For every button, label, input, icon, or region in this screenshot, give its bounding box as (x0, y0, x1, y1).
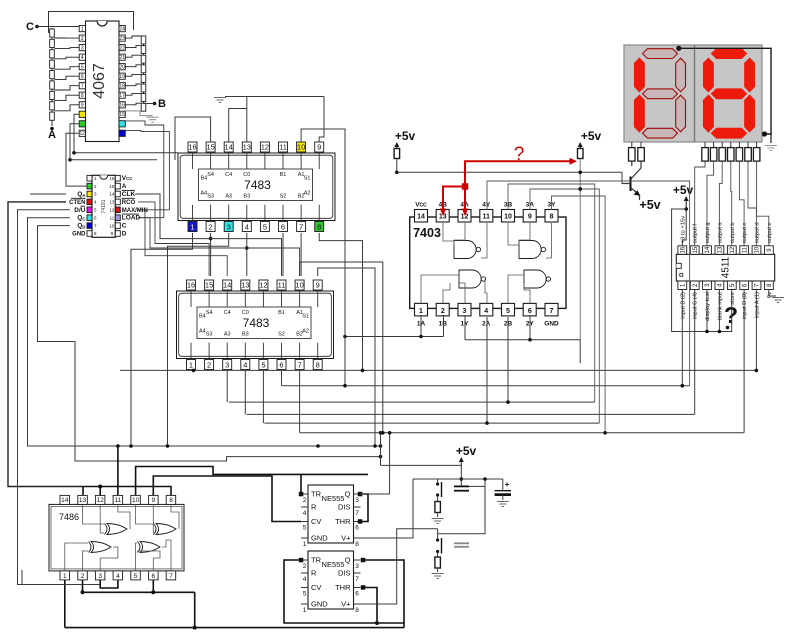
svg-text:12: 12 (730, 246, 736, 253)
svg-text:B1: B1 (278, 310, 285, 316)
svg-text:input C (4): input C (4) (693, 292, 699, 319)
svg-text:S1: S1 (304, 176, 311, 182)
svg-text:A: A (122, 183, 127, 190)
svg-text:3: 3 (81, 45, 84, 51)
svg-text:7: 7 (299, 222, 303, 231)
svg-text:5: 5 (261, 360, 265, 369)
svg-text:display test: display test (705, 292, 711, 321)
svg-text:4511: 4511 (721, 256, 732, 278)
svg-text:5: 5 (263, 222, 267, 231)
svg-text:LOAD: LOAD (122, 215, 141, 222)
svg-text:14: 14 (223, 281, 231, 290)
svg-text:3: 3 (227, 222, 231, 231)
svg-text:14: 14 (417, 214, 425, 221)
svg-text:1: 1 (81, 26, 84, 32)
svg-text:7: 7 (355, 576, 359, 583)
svg-text:11: 11 (278, 281, 286, 290)
svg-text:15: 15 (693, 246, 699, 253)
svg-text:QC: QC (77, 215, 86, 222)
svg-text:input A (1): input A (1) (755, 292, 761, 318)
svg-text:10: 10 (132, 497, 140, 504)
svg-text:3: 3 (355, 563, 359, 570)
svg-text:4: 4 (243, 360, 247, 369)
svg-text:A3: A3 (224, 332, 231, 338)
svg-text:14: 14 (61, 497, 69, 504)
svg-text:15: 15 (119, 112, 125, 118)
svg-text:C4: C4 (225, 172, 232, 178)
svg-text:GND: GND (311, 600, 328, 609)
svg-text:21: 21 (119, 55, 125, 61)
svg-text:+5v: +5v (581, 129, 602, 143)
svg-text:13: 13 (79, 497, 87, 504)
svg-text:13: 13 (241, 281, 249, 290)
svg-text:9: 9 (317, 143, 321, 152)
svg-text:4: 4 (116, 573, 120, 580)
svg-text:+5v: +5v (639, 198, 660, 212)
svg-text:14: 14 (225, 143, 233, 152)
svg-text:16: 16 (109, 176, 115, 181)
svg-text:2: 2 (441, 308, 445, 315)
svg-text:+3 to +15v: +3 to +15v (680, 216, 686, 243)
svg-text:18: 18 (119, 84, 125, 90)
svg-text:B4: B4 (201, 176, 208, 182)
svg-text:8: 8 (550, 214, 554, 221)
svg-text:7486: 7486 (59, 512, 79, 522)
svg-text:A3: A3 (225, 194, 232, 200)
svg-text:12: 12 (80, 131, 86, 137)
svg-text:7403: 7403 (413, 226, 441, 240)
svg-text:5: 5 (81, 65, 84, 71)
svg-text:3: 3 (355, 497, 359, 504)
svg-text:output a: output a (717, 222, 723, 244)
svg-text:15: 15 (109, 184, 115, 189)
svg-text:THR: THR (335, 517, 351, 526)
svg-text:C0: C0 (243, 172, 250, 178)
svg-text:5: 5 (134, 573, 138, 580)
svg-text:9: 9 (528, 214, 532, 221)
svg-text:8: 8 (355, 607, 359, 614)
svg-text:A4: A4 (201, 190, 208, 196)
svg-text:3: 3 (463, 308, 467, 315)
svg-text:15: 15 (206, 143, 214, 152)
svg-text:5: 5 (303, 525, 307, 532)
svg-text:CV: CV (311, 517, 321, 526)
svg-text:blank input: blank input (717, 292, 723, 320)
svg-text:C: C (26, 21, 34, 33)
svg-text:RCO: RCO (122, 200, 136, 206)
svg-text:DIS: DIS (338, 569, 351, 578)
svg-text:6: 6 (151, 573, 155, 580)
svg-text:12: 12 (261, 143, 269, 152)
svg-text:16: 16 (681, 246, 687, 253)
svg-text:R: R (311, 503, 317, 512)
svg-text:15: 15 (205, 281, 213, 290)
svg-text:4: 4 (303, 576, 307, 583)
svg-text:6: 6 (355, 525, 359, 532)
svg-text:output b: output b (730, 222, 736, 243)
svg-text:VCC: VCC (122, 175, 134, 182)
svg-text:10: 10 (504, 214, 512, 221)
svg-text:+5v: +5v (395, 129, 416, 143)
svg-text:12: 12 (97, 497, 105, 504)
svg-text:11: 11 (482, 214, 490, 221)
svg-text:10: 10 (109, 223, 115, 228)
svg-text:CTEN: CTEN (69, 200, 85, 206)
svg-text:11: 11 (110, 215, 115, 220)
svg-text:1: 1 (303, 541, 307, 548)
svg-text:17: 17 (119, 93, 125, 99)
svg-text:GND: GND (72, 232, 86, 238)
svg-text:2A: 2A (482, 320, 491, 327)
svg-text:4: 4 (484, 308, 488, 315)
svg-text:C0: C0 (242, 310, 249, 316)
svg-text:QD: QD (77, 223, 86, 230)
svg-text:R: R (311, 569, 317, 578)
svg-text:16: 16 (188, 143, 196, 152)
svg-text:1: 1 (419, 308, 423, 315)
svg-text:1: 1 (63, 573, 67, 580)
svg-text:GND: GND (544, 320, 559, 327)
svg-text:7483: 7483 (243, 316, 270, 330)
svg-text:13: 13 (718, 246, 724, 253)
svg-text:7: 7 (298, 360, 302, 369)
svg-text:C: C (122, 223, 127, 230)
svg-text:S4: S4 (206, 310, 213, 316)
svg-text:B1: B1 (280, 172, 287, 178)
svg-text:CV: CV (311, 583, 321, 592)
svg-text:D: D (122, 231, 127, 238)
svg-text:?: ? (724, 302, 738, 328)
svg-text:2: 2 (81, 573, 85, 580)
svg-text:11: 11 (279, 143, 287, 152)
svg-text:5: 5 (303, 591, 307, 598)
svg-text:4: 4 (245, 222, 249, 231)
svg-text:V+: V+ (341, 600, 351, 609)
svg-text:2: 2 (81, 36, 84, 42)
svg-text:C4: C4 (224, 310, 231, 316)
svg-text:16: 16 (119, 103, 125, 109)
svg-text:5: 5 (506, 308, 510, 315)
svg-text:13: 13 (243, 143, 251, 152)
svg-text:6: 6 (281, 222, 285, 231)
svg-text:3: 3 (225, 360, 229, 369)
svg-text:4Y: 4Y (482, 202, 491, 209)
svg-text:23: 23 (119, 36, 125, 42)
svg-text:19: 19 (119, 74, 125, 80)
svg-text:6: 6 (528, 308, 532, 315)
svg-text:10: 10 (295, 281, 303, 290)
svg-text:input B (2): input B (2) (680, 292, 686, 319)
svg-text:1B: 1B (439, 320, 448, 327)
svg-text:B3: B3 (242, 332, 249, 338)
svg-text:output e: output e (767, 222, 773, 243)
svg-text:1: 1 (303, 607, 307, 614)
svg-text:S3: S3 (207, 194, 214, 200)
svg-text:7483: 7483 (244, 178, 271, 192)
svg-text:6: 6 (81, 74, 84, 80)
svg-text:A2: A2 (302, 328, 309, 334)
svg-text:8: 8 (317, 222, 321, 231)
svg-text:10: 10 (755, 246, 761, 253)
svg-text:TR: TR (311, 556, 322, 565)
svg-text:+: + (505, 480, 510, 489)
svg-text:V+: V+ (341, 534, 351, 543)
svg-text:A2: A2 (304, 190, 311, 196)
svg-text:2: 2 (303, 497, 307, 504)
svg-text:6: 6 (279, 360, 283, 369)
svg-text:2: 2 (303, 563, 307, 570)
svg-text:4067: 4067 (91, 63, 108, 99)
svg-text:B3: B3 (243, 194, 250, 200)
svg-text:12: 12 (259, 281, 267, 290)
svg-text:DIS: DIS (338, 503, 351, 512)
svg-text:9: 9 (316, 281, 320, 290)
svg-text:A4: A4 (199, 328, 206, 334)
svg-text:D/U: D/U (74, 207, 86, 214)
svg-text:A: A (48, 129, 56, 141)
svg-text:11: 11 (742, 246, 748, 253)
svg-text:+5v: +5v (673, 183, 694, 197)
svg-text:CLK: CLK (122, 191, 136, 198)
svg-text:9: 9 (151, 497, 155, 504)
svg-text:1: 1 (189, 360, 193, 369)
svg-text:S2: S2 (280, 194, 287, 200)
svg-text:Q: Q (345, 490, 351, 499)
svg-text:+5v: +5v (456, 444, 477, 458)
svg-text:24: 24 (119, 26, 125, 32)
svg-text:8: 8 (81, 93, 84, 99)
svg-text:GND: GND (311, 534, 328, 543)
svg-text:74191: 74191 (101, 199, 107, 213)
svg-text:14: 14 (109, 192, 115, 197)
svg-text:1: 1 (190, 222, 194, 231)
svg-text:14: 14 (705, 246, 711, 253)
svg-text:10: 10 (297, 143, 305, 152)
svg-text:9: 9 (81, 103, 84, 109)
svg-text:QA: QA (77, 191, 86, 198)
svg-text:input D (8): input D (8) (742, 292, 748, 319)
svg-text:TR: TR (311, 490, 322, 499)
svg-text:S4: S4 (207, 172, 214, 178)
svg-text:Q: Q (345, 556, 351, 565)
svg-text:8: 8 (169, 497, 173, 504)
svg-text:13: 13 (109, 200, 115, 205)
svg-text:12: 12 (109, 208, 115, 213)
svg-text:VCC: VCC (415, 202, 427, 209)
svg-text:output f: output f (693, 224, 699, 244)
svg-text:output c: output c (742, 223, 748, 244)
svg-text:4: 4 (81, 55, 84, 61)
svg-text:11: 11 (115, 497, 122, 504)
svg-text:7: 7 (169, 573, 173, 580)
svg-text:7: 7 (81, 84, 84, 90)
svg-text:S1: S1 (302, 314, 309, 320)
svg-text:8: 8 (316, 360, 320, 369)
svg-text:2: 2 (209, 222, 213, 231)
svg-text:THR: THR (335, 583, 351, 592)
svg-text:B: B (158, 98, 166, 110)
svg-text:6: 6 (355, 591, 359, 598)
svg-text:output g: output g (705, 222, 711, 243)
svg-text:S2: S2 (278, 332, 285, 338)
svg-text:20: 20 (119, 65, 125, 71)
svg-text:?: ? (514, 144, 525, 165)
svg-text:B4: B4 (199, 314, 206, 320)
svg-text:output d: output d (755, 222, 761, 243)
svg-text:22: 22 (119, 45, 125, 51)
svg-text:7: 7 (355, 510, 359, 517)
svg-text:16: 16 (187, 281, 195, 290)
svg-text:MAX/MIN: MAX/MIN (122, 208, 148, 214)
svg-text:7: 7 (550, 308, 554, 315)
svg-text:8: 8 (355, 541, 359, 548)
svg-text:2: 2 (207, 360, 211, 369)
svg-text:3: 3 (98, 573, 102, 580)
svg-text:S3: S3 (206, 332, 213, 338)
svg-text:4: 4 (303, 510, 307, 517)
